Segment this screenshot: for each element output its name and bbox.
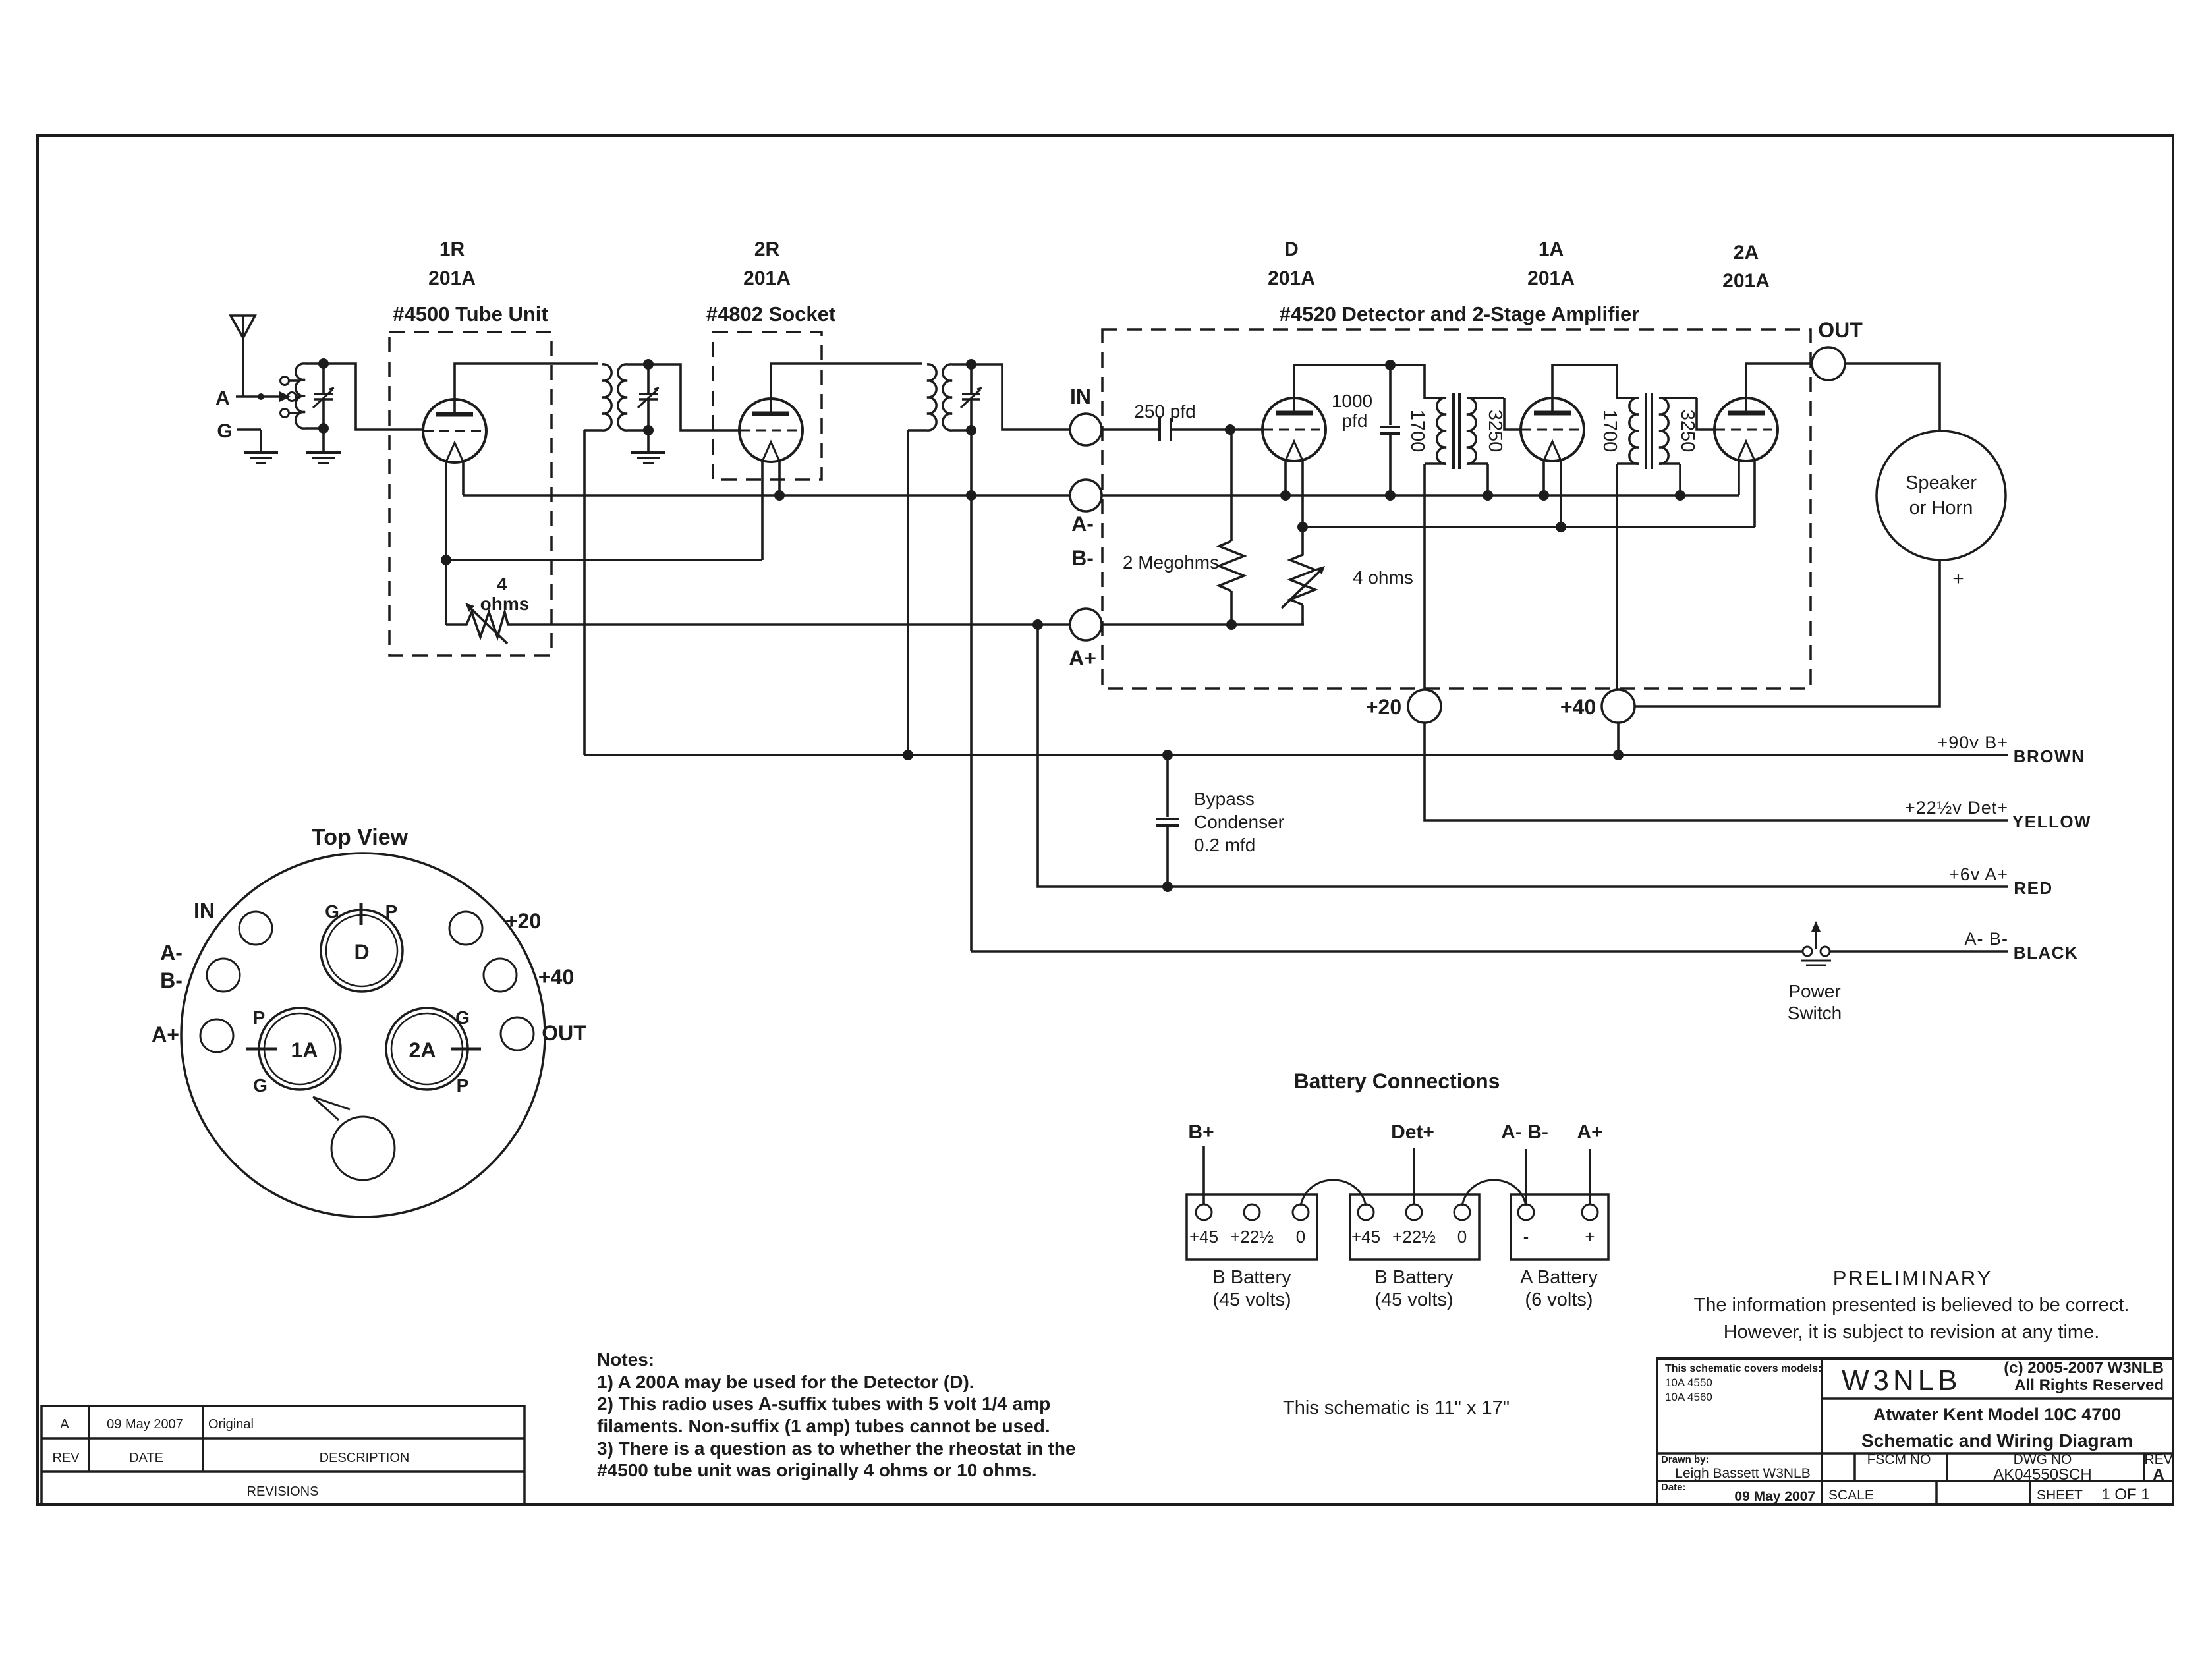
svg-text:1A: 1A	[291, 1038, 318, 1062]
bypass condenser C6 0.2 mfd	[1156, 750, 1284, 892]
wire label: +22½v Det+ yellow	[1905, 798, 2091, 831]
svg-text:1R: 1R	[439, 238, 465, 260]
svg-text:P: P	[385, 901, 398, 922]
audio transformer T4 secondary 3250	[1467, 398, 1506, 464]
svg-text:201A: 201A	[743, 267, 791, 289]
svg-text:201A: 201A	[428, 267, 476, 289]
wire: 1R filament left leg	[441, 461, 451, 625]
rheostat R1 4 ohms	[446, 574, 529, 644]
wire: speaker bottom to +40 terminal	[1635, 560, 1940, 706]
title block: drawing title	[1861, 1405, 2133, 1451]
battery B1 (B Battery 45 volts)	[1187, 1194, 1317, 1310]
svg-text:B-: B-	[1071, 546, 1094, 570]
svg-text:BROWN: BROWN	[2014, 746, 2085, 766]
wire: 2R filament left leg	[761, 461, 764, 560]
svg-text:However, it is subject to revi: However, it is subject to revision at an…	[1724, 1322, 2100, 1343]
svg-text:0: 0	[1296, 1227, 1305, 1246]
svg-text:2) This radio uses A-suffix tu: 2) This radio uses A-suffix tubes with 5…	[597, 1393, 1050, 1414]
svg-text:filaments. Non-suffix (1 amp): filaments. Non-suffix (1 amp) tubes cann…	[597, 1416, 1050, 1436]
top view: pin +20	[449, 909, 541, 945]
ground (C1 bottom)	[306, 453, 341, 463]
wire: A+ line (rheostat to detector rheostat)	[521, 619, 1304, 630]
wire: T5 secondary bottom to A- bus	[1675, 464, 1685, 501]
wire: T4 primary bottom down to +20 terminal	[1423, 464, 1426, 690]
audio transformer T5 core	[1646, 393, 1652, 469]
terminal +40	[1560, 690, 1635, 723]
svg-text:RED: RED	[2014, 878, 2052, 898]
wire: A+ down to red bus	[1038, 625, 2008, 887]
svg-text:A- B-: A- B-	[1501, 1121, 1548, 1143]
svg-text:PRELIMINARY: PRELIMINARY	[1833, 1266, 1993, 1289]
svg-text:Battery Connections: Battery Connections	[1294, 1069, 1500, 1093]
svg-text:09 May 2007: 09 May 2007	[107, 1417, 183, 1432]
svg-text:SHEET: SHEET	[2037, 1488, 2083, 1503]
wire: T3 primary bottom down to B+ bus	[903, 430, 913, 760]
svg-text:FSCM NO: FSCM NO	[1867, 1452, 1931, 1467]
svg-text:Drawn by:: Drawn by:	[1661, 1454, 1709, 1465]
RF transformer T2 secondary	[618, 364, 648, 430]
terminal OUT	[1812, 318, 1863, 380]
revisions table	[42, 1406, 524, 1505]
wire: T4 secondary bottom to A- bus	[1483, 464, 1493, 501]
node G (ground input)	[217, 420, 261, 451]
dashed box #4520 Detector and 2-Stage Amplifier	[1102, 238, 1811, 688]
svg-text:YELLOW: YELLOW	[2012, 812, 2091, 831]
svg-text:1700: 1700	[1599, 410, 1620, 453]
title block: models cell	[1665, 1363, 1821, 1403]
antenna	[231, 316, 255, 397]
title block: W3NLB logo	[1842, 1364, 1962, 1397]
svg-text:1) A 200A may be used for the: 1) A 200A may be used for the Detector (…	[597, 1372, 975, 1392]
wire: 1A filament left leg to A- bus	[1539, 460, 1549, 501]
svg-text:2A: 2A	[409, 1038, 436, 1062]
tube 1R	[423, 399, 486, 462]
svg-text:(45 volts): (45 volts)	[1212, 1289, 1291, 1310]
wire: 2A plate to OUT	[1746, 364, 1813, 413]
svg-text:A: A	[60, 1417, 69, 1432]
svg-text:Switch: Switch	[1788, 1003, 1842, 1023]
tube 1A	[1521, 398, 1584, 461]
wire: A- filament bus	[463, 461, 1739, 495]
title block: date cell	[1661, 1482, 1815, 1504]
svg-text:Det+: Det+	[1391, 1121, 1434, 1143]
svg-text:201A: 201A	[1722, 270, 1770, 292]
power switch SW1	[1788, 921, 1842, 1023]
wire: 1A plate to T5 primary	[1552, 365, 1636, 413]
wire: +20 down to yellow bus	[1425, 723, 2008, 820]
top view: outer circle	[181, 825, 545, 1217]
dashed box #4500 Tube Unit	[389, 238, 551, 656]
svg-text:G: G	[217, 420, 232, 442]
svg-text:B-: B-	[160, 968, 183, 992]
ground (G input)	[244, 453, 278, 463]
svg-text:G: G	[455, 1007, 470, 1028]
variable capacitor C1 (antenna tuning)	[313, 358, 334, 451]
svg-text:+45: +45	[1189, 1227, 1218, 1246]
svg-text:A-: A-	[1071, 512, 1094, 536]
svg-text:IN: IN	[194, 899, 215, 922]
svg-text:+: +	[1952, 568, 1964, 590]
wire: +40 down to brown bus	[1613, 723, 1624, 760]
title block	[1657, 1358, 2173, 1505]
svg-text:10A 4550: 10A 4550	[1665, 1376, 1712, 1389]
wire: T2 secondary top to tube 2R grid	[648, 364, 739, 430]
wire: T4 secondary top to 1A grid	[1504, 398, 1521, 430]
terminal A- B-	[1070, 480, 1102, 570]
svg-text:#4500 Tube Unit: #4500 Tube Unit	[393, 302, 548, 325]
svg-text:Original: Original	[208, 1417, 254, 1432]
wire: detector rheostat to amplifier filaments	[1303, 461, 1755, 532]
battery jumper B2-B3	[1462, 1180, 1526, 1206]
RF transformer T3 primary	[908, 364, 936, 430]
svg-text:2A: 2A	[1734, 242, 1759, 264]
wire: T2 primary bottom down to B+ bus	[583, 430, 586, 755]
top view: pin A+	[152, 1019, 233, 1052]
svg-text:1 OF 1: 1 OF 1	[2101, 1486, 2149, 1503]
audio transformer T4 primary 1700	[1407, 398, 1446, 464]
wire: OUT to speaker	[1845, 364, 1940, 431]
svg-text:A- B-: A- B-	[1964, 929, 2008, 949]
svg-text:+6v A+: +6v A+	[1949, 864, 2008, 884]
svg-text:Atwater Kent Model 10C 4700: Atwater Kent Model 10C 4700	[1873, 1405, 2122, 1424]
ground (C2 bottom)	[631, 453, 665, 463]
svg-text:B+: B+	[1188, 1121, 1214, 1143]
svg-text:4 ohms: 4 ohms	[1353, 567, 1413, 588]
sheet size note	[1283, 1397, 1510, 1418]
tube 2A	[1714, 398, 1778, 461]
svg-text:(c) 2005-2007 W3NLB: (c) 2005-2007 W3NLB	[2004, 1359, 2164, 1377]
svg-text:+40: +40	[538, 965, 574, 989]
svg-text:Top View: Top View	[312, 825, 409, 850]
svg-text:All Rights Reserved: All Rights Reserved	[2014, 1376, 2164, 1394]
node A (antenna input)	[215, 387, 291, 409]
svg-text:This schematic is 11" x 17": This schematic is 11" x 17"	[1283, 1397, 1510, 1418]
svg-text:+45: +45	[1351, 1227, 1380, 1246]
svg-text:3) There is a question as to w: 3) There is a question as to whether the…	[597, 1438, 1076, 1459]
audio transformer T5 primary 1700	[1599, 398, 1639, 464]
svg-text:0: 0	[1457, 1227, 1467, 1246]
svg-text:#4802 Socket: #4802 Socket	[706, 302, 835, 325]
svg-text:2R: 2R	[754, 238, 780, 260]
battery lead Det+	[1391, 1121, 1434, 1204]
svg-text:+40: +40	[1560, 695, 1596, 719]
svg-text:Date:: Date:	[1661, 1482, 1686, 1493]
svg-text:Schematic and Wiring Diagram: Schematic and Wiring Diagram	[1861, 1430, 2133, 1451]
wire: +90v B+ brown bus	[584, 733, 2085, 766]
svg-text:0.2 mfd: 0.2 mfd	[1194, 835, 1255, 855]
battery B2 (B Battery 45 volts)	[1350, 1194, 1479, 1310]
svg-text:G: G	[325, 901, 339, 922]
svg-text:DWG NO: DWG NO	[2014, 1452, 2072, 1467]
title block: copyright	[2004, 1359, 2164, 1394]
battery jumper B1-B2	[1301, 1180, 1366, 1206]
border frame	[38, 136, 2173, 1505]
svg-text:The information presented is b: The information presented is believed to…	[1694, 1295, 2130, 1316]
svg-text:G: G	[253, 1075, 268, 1096]
svg-text:or Horn: or Horn	[1909, 497, 1973, 518]
variable capacitor C3	[961, 359, 982, 435]
wire: T5 primary bottom down to +40 terminal	[1616, 464, 1618, 690]
battery connections title	[1294, 1069, 1500, 1093]
audio transformer T4 core	[1454, 393, 1459, 469]
battery lead A+	[1577, 1121, 1602, 1204]
svg-text:A+: A+	[152, 1022, 179, 1046]
battery lead A- B-	[1501, 1121, 1548, 1204]
svg-text:REVISIONS: REVISIONS	[247, 1484, 319, 1499]
svg-text:P: P	[253, 1007, 266, 1028]
svg-text:This schematic covers models:: This schematic covers models:	[1665, 1363, 1821, 1374]
terminal IN	[1070, 385, 1102, 445]
wire: coil top to tube 1R grid	[324, 364, 423, 430]
wire: T3 secondary top to IN terminal	[971, 364, 1070, 430]
svg-text:+20: +20	[505, 909, 541, 933]
wire: 2R filament right leg to A- bus	[774, 461, 785, 501]
notes text	[597, 1349, 1076, 1480]
antenna coil taps	[281, 377, 300, 418]
rheostat R3 4 ohms (detector filament)	[1282, 527, 1413, 625]
svg-text:Condenser: Condenser	[1194, 812, 1284, 832]
svg-text:pfd: pfd	[1342, 410, 1368, 431]
wire: filament series link (1R to 2R)	[446, 559, 762, 561]
title block: scale / sheet cells	[1828, 1486, 2150, 1503]
svg-text:#4520 Detector and 2-Stage Amp: #4520 Detector and 2-Stage Amplifier	[1280, 302, 1640, 325]
svg-text:B Battery: B Battery	[1212, 1267, 1291, 1288]
wire: T5 secondary top to 2A grid	[1697, 398, 1714, 430]
wire: IN to detector grid	[1102, 424, 1262, 435]
svg-text:REV: REV	[52, 1451, 80, 1465]
wire: A- B- black bus	[971, 929, 2078, 963]
top view: pin A- B-	[160, 941, 240, 992]
wire: 2R plate to T3 primary	[771, 364, 922, 414]
resistor R2 2 Megohms	[1123, 430, 1244, 630]
svg-text:-: -	[1523, 1227, 1529, 1246]
battery B3 (A Battery 6 volts)	[1511, 1194, 1608, 1310]
wire: 1R filament right leg to A- bus	[462, 461, 465, 495]
wire label: +6v A+ red	[1949, 864, 2053, 898]
svg-text:P: P	[457, 1075, 469, 1096]
svg-text:DESCRIPTION: DESCRIPTION	[320, 1451, 410, 1465]
svg-text:+90v B+: +90v B+	[1937, 733, 2008, 752]
svg-text:Power: Power	[1788, 981, 1840, 1001]
svg-text:A: A	[2153, 1466, 2164, 1484]
svg-text:A+: A+	[1069, 646, 1096, 670]
svg-text:A Battery: A Battery	[1520, 1267, 1598, 1288]
variable capacitor C2	[638, 359, 659, 451]
revisions table text	[52, 1417, 409, 1499]
svg-text:201A: 201A	[1268, 267, 1315, 289]
wire: D filament right leg to rheostat R3	[1297, 460, 1308, 532]
svg-text:D: D	[1284, 238, 1299, 260]
svg-text:250 pfd: 250 pfd	[1134, 401, 1195, 422]
wire: 1R plate to T2 primary	[455, 364, 598, 414]
svg-text:D: D	[354, 940, 369, 964]
svg-text:+20: +20	[1366, 695, 1401, 719]
svg-text:10A 4560: 10A 4560	[1665, 1391, 1712, 1403]
svg-text:#4500 tube unit was originally: #4500 tube unit was originally 4 ohms or…	[597, 1460, 1037, 1480]
svg-text:Bypass: Bypass	[1194, 789, 1255, 809]
antenna coil L1	[296, 364, 324, 428]
top view: pin OUT	[501, 1017, 586, 1050]
preliminary disclaimer	[1694, 1266, 2130, 1343]
wire: D plate to T4 primary	[1294, 360, 1444, 413]
svg-text:W3NLB: W3NLB	[1842, 1364, 1962, 1397]
svg-text:Notes:: Notes:	[597, 1349, 654, 1370]
svg-text:4: 4	[497, 574, 507, 594]
RF transformer T2 primary	[584, 364, 611, 430]
svg-text:(6 volts): (6 volts)	[1525, 1289, 1593, 1310]
svg-text:+22½: +22½	[1230, 1227, 1274, 1246]
title block: drawn by cell	[1661, 1454, 1811, 1481]
svg-text:AK04550SCH: AK04550SCH	[1993, 1466, 2091, 1484]
svg-text:201A: 201A	[1527, 267, 1575, 289]
svg-text:DATE: DATE	[129, 1451, 163, 1465]
terminal +20	[1366, 690, 1441, 723]
terminal A+	[1069, 609, 1102, 670]
svg-text:1700: 1700	[1407, 410, 1428, 453]
dashed box #4802 Socket	[706, 238, 835, 480]
wire: T3 secondary bottom down to black bus (A- B-)	[966, 430, 976, 951]
tube 2R	[739, 399, 803, 462]
capacitor C5 1000 pfd	[1332, 365, 1400, 501]
svg-text:Speaker: Speaker	[1906, 472, 1977, 493]
svg-text:OUT: OUT	[542, 1021, 586, 1045]
svg-text:+: +	[1585, 1227, 1595, 1246]
svg-text:3250: 3250	[1484, 410, 1506, 453]
tube D	[1262, 398, 1326, 461]
top view: socket 2A	[386, 1007, 481, 1096]
svg-text:REV: REV	[2144, 1452, 2172, 1467]
svg-text:2 Megohms: 2 Megohms	[1123, 552, 1219, 573]
title block: FSCM / DWG / REV cells	[1867, 1452, 2173, 1484]
svg-text:1A: 1A	[1539, 238, 1564, 260]
top view: socket 1A	[246, 1007, 341, 1096]
svg-text:(45 volts): (45 volts)	[1374, 1289, 1453, 1310]
battery lead B+	[1188, 1121, 1214, 1204]
svg-text:1000: 1000	[1332, 391, 1372, 411]
svg-text:A-: A-	[160, 941, 183, 965]
svg-text:IN: IN	[1070, 385, 1091, 408]
wire: D filament left leg to A- bus	[1280, 460, 1291, 501]
capacitor C4 250 pfd	[1134, 401, 1195, 441]
top view: pin IN	[194, 899, 272, 945]
audio transformer T5 secondary 3250	[1659, 398, 1698, 464]
svg-text:Leigh Bassett W3NLB: Leigh Bassett W3NLB	[1675, 1466, 1810, 1481]
svg-text:+22½: +22½	[1392, 1227, 1436, 1246]
top view: pilot lamp circle	[313, 1097, 395, 1180]
svg-text:+22½v Det+: +22½v Det+	[1905, 798, 2008, 818]
RF transformer T3 secondary	[943, 364, 971, 430]
svg-text:A: A	[215, 387, 230, 409]
svg-text:B Battery: B Battery	[1374, 1267, 1454, 1288]
svg-text:OUT: OUT	[1818, 318, 1863, 342]
svg-text:3250: 3250	[1677, 410, 1698, 453]
svg-text:SCALE: SCALE	[1828, 1488, 1874, 1503]
svg-text:09 May 2007: 09 May 2007	[1734, 1489, 1815, 1504]
top view: socket D	[321, 901, 403, 992]
top view: pin +40	[484, 959, 574, 992]
svg-text:A+: A+	[1577, 1121, 1602, 1143]
svg-text:BLACK: BLACK	[2014, 943, 2079, 963]
speaker or horn	[1877, 431, 2006, 590]
